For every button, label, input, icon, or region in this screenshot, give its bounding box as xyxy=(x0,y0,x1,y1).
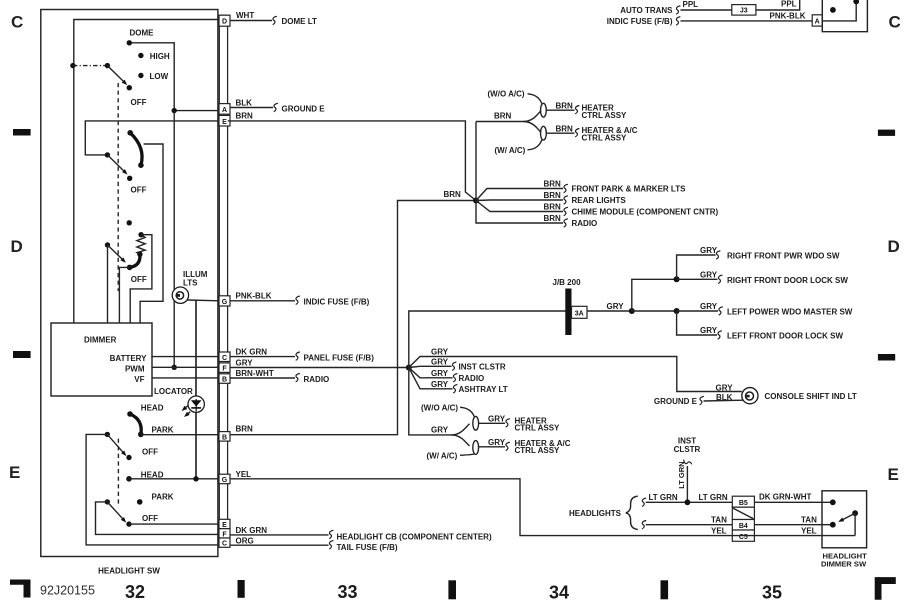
svg-text:GRY: GRY xyxy=(607,302,625,311)
svg-text:CTRL ASSY: CTRL ASSY xyxy=(582,111,628,120)
svg-text:HEADLIGHTS: HEADLIGHTS xyxy=(569,509,622,518)
junction dot LED to HEAD wire xyxy=(193,476,198,481)
wire S2 arc tap to vertical xyxy=(140,144,163,323)
svg-text:BATTERY: BATTERY xyxy=(110,354,148,363)
grid tick 3 xyxy=(661,580,669,599)
wire BRN to chime module xyxy=(476,201,563,212)
wire BRN to front park and marker lts xyxy=(476,189,563,201)
switch S3 contact arc xyxy=(130,254,140,267)
headlight dimmer switch box xyxy=(822,491,867,548)
svg-text:C: C xyxy=(222,355,227,362)
wire GRY from pin F to junction xyxy=(230,367,409,369)
switch S1 arm with arrow xyxy=(107,66,125,84)
wire LT GRN from inst clstr down xyxy=(683,460,692,465)
switch S5 HEAD contact dot xyxy=(126,476,132,482)
node GRY junction xyxy=(406,365,412,371)
svg-text:ORG: ORG xyxy=(236,537,254,546)
svg-text:LOCATOR: LOCATOR xyxy=(154,387,193,396)
svg-text:INST CLSTR: INST CLSTR xyxy=(459,363,506,372)
switch S2 lower contact dot xyxy=(138,162,144,168)
switch S1 HIGH contact xyxy=(138,53,143,58)
wire S3 pole to dimmer box xyxy=(107,245,109,323)
node BRN junction xyxy=(473,198,479,204)
switch S3 upper contact dot xyxy=(127,220,132,225)
switch S1 OFF contact xyxy=(127,85,132,90)
pin box C2 xyxy=(219,538,230,548)
svg-text:BRN: BRN xyxy=(556,102,574,111)
svg-text:C: C xyxy=(889,12,901,31)
wire A junction to pin A xyxy=(174,110,219,112)
wire GRY left front door lock sw xyxy=(677,311,717,335)
wire GRY radio xyxy=(409,368,453,378)
switch S4 OFF contact dot xyxy=(126,455,131,460)
svg-text:C: C xyxy=(11,12,23,31)
wire S5 pole to pin F2 xyxy=(96,502,220,535)
svg-text:J3: J3 xyxy=(740,8,748,15)
svg-text:BRN: BRN xyxy=(236,111,254,120)
svg-text:BRN: BRN xyxy=(544,191,562,200)
switch S5 pole dot xyxy=(105,499,110,504)
headlight switch inner partition (top edge + left edge) xyxy=(74,20,220,324)
connector oval W/ A/C 2 xyxy=(473,441,479,455)
wire pin G circuit down through LED to HEAD wire xyxy=(195,301,197,479)
svg-text:HEADLIGHT CB (COMPONENT CENTER: HEADLIGHT CB (COMPONENT CENTER) xyxy=(337,533,492,542)
svg-text:BRN: BRN xyxy=(544,203,562,212)
svg-text:LT GRN: LT GRN xyxy=(677,461,686,488)
switch S1 pivot dot xyxy=(105,63,110,68)
switch S4 contact arc xyxy=(130,414,141,434)
pin box E2 xyxy=(219,519,230,529)
svg-text:GRY: GRY xyxy=(700,246,718,255)
svg-text:CTRL ASSY: CTRL ASSY xyxy=(515,424,561,433)
wire lamp to pin G xyxy=(188,299,220,302)
wire YEL from pin G2 to dimmer switch xyxy=(230,479,855,536)
svg-text:F: F xyxy=(222,366,227,373)
wire PPL from J3 up xyxy=(756,0,800,10)
dimmer module box xyxy=(51,323,152,396)
svg-text:PNK-BLK: PNK-BLK xyxy=(236,292,272,301)
lamp ILLUM LTS xyxy=(172,287,188,303)
switch S1 pole dot xyxy=(70,63,75,68)
switch S2 arm with arrow xyxy=(107,155,125,173)
svg-text:PPL: PPL xyxy=(683,0,699,9)
switch S1 LOW contact xyxy=(138,73,143,78)
wire BLK ground e xyxy=(230,107,273,109)
svg-text:DOME: DOME xyxy=(130,28,155,37)
wire S4 pole to pin C2 xyxy=(86,434,219,545)
wire S5 HEAD to pin G2 xyxy=(129,478,219,480)
svg-text:HEAD: HEAD xyxy=(141,404,164,413)
wire GRY ashtray lt xyxy=(409,368,453,389)
svg-text:D: D xyxy=(222,19,227,26)
junction dot A xyxy=(172,108,177,113)
svg-text:G: G xyxy=(222,299,228,306)
wire BRN heater feed xyxy=(475,122,477,201)
switch S1 dome contact dot xyxy=(127,40,132,45)
svg-text:LTS: LTS xyxy=(183,279,198,288)
dimmer sw contact dots xyxy=(830,499,836,505)
svg-text:AUTO TRANS: AUTO TRANS xyxy=(620,6,673,15)
wire YEL through C5 xyxy=(732,535,754,537)
svg-text:F: F xyxy=(222,531,227,538)
svg-text:WHT: WHT xyxy=(236,11,254,20)
pin box A3 xyxy=(812,15,822,26)
svg-text:INDIC FUSE (F/B): INDIC FUSE (F/B) xyxy=(607,17,673,26)
svg-text:(W/ A/C): (W/ A/C) xyxy=(495,146,526,155)
edge tick left 2 xyxy=(13,351,31,358)
wire GRY up to J/B 200 xyxy=(409,311,632,368)
svg-text:YEL: YEL xyxy=(711,527,727,536)
wire BRN from pin E across page xyxy=(228,121,476,201)
svg-text:RADIO: RADIO xyxy=(572,219,598,228)
svg-text:GRY: GRY xyxy=(716,383,734,392)
svg-text:GRY: GRY xyxy=(431,369,449,378)
switch S2 OFF contact dot xyxy=(127,176,132,181)
svg-text:YEL: YEL xyxy=(236,470,252,479)
pin box D xyxy=(219,15,230,26)
wire GRY down to heater ovals xyxy=(409,368,452,435)
wire PWM to pin F xyxy=(152,366,219,368)
svg-text:E: E xyxy=(222,522,227,529)
svg-text:GRY: GRY xyxy=(431,348,449,357)
svg-text:PANEL FUSE (F/B): PANEL FUSE (F/B) xyxy=(304,354,375,363)
pin box A xyxy=(219,104,230,115)
wire BRN park lights from pin B2 up to BRN junction xyxy=(230,201,476,435)
svg-text:RIGHT FRONT PWR WDO SW: RIGHT FRONT PWR WDO SW xyxy=(727,252,840,261)
wire GRY to heater a/c ctrl assy 2 xyxy=(479,446,505,449)
svg-text:A: A xyxy=(222,107,227,114)
svg-text:HIGH: HIGH xyxy=(150,52,170,61)
svg-text:B: B xyxy=(222,434,227,441)
svg-text:E: E xyxy=(222,119,227,126)
switch S2 pole dot xyxy=(105,152,110,157)
svg-text:(W/O A/C): (W/O A/C) xyxy=(421,403,458,412)
svg-text:E: E xyxy=(888,465,899,484)
connector strip xyxy=(219,15,227,546)
wire BRN to rear lights xyxy=(476,199,563,202)
svg-text:OFF: OFF xyxy=(131,275,147,284)
svg-text:YEL: YEL xyxy=(801,527,817,536)
svg-text:A: A xyxy=(815,19,820,26)
wire S5 OFF to pin E2 xyxy=(129,523,219,525)
svg-text:(W/ A/C): (W/ A/C) xyxy=(427,451,458,460)
svg-text:TAN: TAN xyxy=(801,516,817,525)
grid tick 2 xyxy=(448,580,456,599)
wire BATTERY to pin C xyxy=(152,356,219,358)
switch S2 upper contact dot xyxy=(127,130,133,136)
connector stack B5 / B4 / C5 xyxy=(732,496,754,507)
svg-text:BRN: BRN xyxy=(494,111,512,120)
connector oval W/O A/C 2 xyxy=(473,416,479,430)
svg-text:J/B 200: J/B 200 xyxy=(553,278,582,287)
junction dot PWM xyxy=(172,365,177,370)
svg-text:VF: VF xyxy=(134,375,144,384)
svg-text:BRN: BRN xyxy=(556,125,574,134)
svg-text:DOME LT: DOME LT xyxy=(282,17,318,26)
svg-text:HEAD: HEAD xyxy=(141,470,164,479)
svg-text:32: 32 xyxy=(125,582,145,602)
svg-text:PNK-BLK: PNK-BLK xyxy=(770,12,806,21)
svg-text:DK GRN-WHT: DK GRN-WHT xyxy=(759,492,812,501)
switch S3 OFF contact dot xyxy=(127,265,133,271)
wire LT GRN headlights xyxy=(642,498,646,506)
svg-text:REAR LIGHTS: REAR LIGHTS xyxy=(572,196,627,205)
svg-text:D: D xyxy=(888,237,900,256)
wire pin E to switch S2 pole xyxy=(85,121,219,155)
svg-text:PARK: PARK xyxy=(152,425,174,434)
connector oval W/O A/C xyxy=(541,103,547,117)
pin box G2 xyxy=(219,474,230,484)
pin box G xyxy=(219,296,230,306)
svg-text:BRN: BRN xyxy=(444,190,462,199)
pin box B xyxy=(219,374,230,384)
wire GRY right front door lock sw xyxy=(677,278,718,280)
wire VF to pin B xyxy=(152,377,219,379)
switch S3 arm with arrow xyxy=(108,245,125,261)
svg-text:INDIC FUSE (F/B): INDIC FUSE (F/B) xyxy=(304,298,370,307)
svg-text:BRN: BRN xyxy=(236,424,254,433)
svg-text:GRY: GRY xyxy=(488,438,506,447)
svg-text:GRY: GRY xyxy=(431,380,449,389)
svg-text:HEADLIGHT SW: HEADLIGHT SW xyxy=(98,567,160,576)
wire TAN to dimmer sw xyxy=(754,524,831,526)
wire GRY right front pwr wdo sw xyxy=(677,255,716,279)
node junction left branch xyxy=(674,308,680,314)
svg-text:TAN: TAN xyxy=(711,516,727,525)
node junction right front xyxy=(674,276,680,282)
switch S2 contact arc xyxy=(130,133,142,165)
wire Y split to heater ovals xyxy=(524,111,542,122)
pin box E xyxy=(219,115,230,126)
svg-text:OFF: OFF xyxy=(142,448,158,457)
wire S4 PARK to pin B2 xyxy=(141,434,220,436)
svg-text:C: C xyxy=(222,541,227,548)
svg-text:OFF: OFF xyxy=(142,514,158,523)
dimmer sw pole dot and arm xyxy=(852,510,858,516)
svg-text:LEFT POWER WDO MASTER SW: LEFT POWER WDO MASTER SW xyxy=(727,308,853,317)
svg-text:GRY: GRY xyxy=(431,425,449,434)
corner mark bottom right xyxy=(875,577,896,600)
wire Y split to heater ovals 2 xyxy=(452,424,470,435)
headlight switch outer box xyxy=(41,10,218,557)
LED arrows xyxy=(183,406,188,410)
svg-text:GRY: GRY xyxy=(700,302,718,311)
pin box F2 xyxy=(219,529,230,539)
svg-text:E: E xyxy=(9,463,20,482)
svg-text:D: D xyxy=(11,237,23,256)
switch S5 OFF contact dot xyxy=(126,521,131,526)
wire TAN headlights xyxy=(642,521,646,529)
svg-text:RADIO: RADIO xyxy=(304,375,330,384)
svg-text:G: G xyxy=(222,477,228,484)
wire DK GRN-WHT to dimmer sw xyxy=(754,501,831,503)
svg-text:LT GRN: LT GRN xyxy=(699,493,728,502)
svg-text:CONSOLE SHIFT IND LT: CONSOLE SHIFT IND LT xyxy=(765,392,857,401)
junction block J3 xyxy=(732,5,756,16)
wire DOME contact to A junction xyxy=(129,43,174,111)
switch S5 PARK contact dot xyxy=(137,499,143,505)
svg-text:BRN-WHT: BRN-WHT xyxy=(236,369,274,378)
svg-text:34: 34 xyxy=(549,583,569,603)
svg-text:GRY: GRY xyxy=(236,359,254,368)
svg-text:DIMMER: DIMMER xyxy=(84,336,117,345)
wire GRY long run to console shift ind lt xyxy=(409,357,742,392)
ignition switch box top right xyxy=(822,0,867,32)
pin box F xyxy=(219,363,230,373)
edge tick left 1 xyxy=(13,129,31,136)
mechanical link dashed line lower xyxy=(117,439,119,508)
svg-text:92J20155: 92J20155 xyxy=(40,584,95,598)
wire DK GRN panel fuse xyxy=(230,356,295,358)
switch S4 arm with arrow xyxy=(107,434,125,454)
wire DK GRN headlight cb xyxy=(230,534,329,536)
svg-text:OFF: OFF xyxy=(131,185,147,194)
wire BRN to heater ctrl assy xyxy=(546,109,574,111)
edge tick right 1 xyxy=(878,130,895,136)
svg-text:PARK: PARK xyxy=(152,493,174,502)
svg-text:OFF: OFF xyxy=(131,98,147,107)
svg-text:(W/O A/C): (W/O A/C) xyxy=(488,90,525,99)
svg-text:GRY: GRY xyxy=(431,357,449,366)
wire GRY inst clstr xyxy=(409,366,452,367)
svg-text:B: B xyxy=(222,377,227,384)
mechanical link dashed line upper xyxy=(117,83,119,291)
wire GRY up to right front branch xyxy=(632,279,677,311)
svg-text:PPL: PPL xyxy=(781,0,797,9)
svg-text:TAIL FUSE (F/B): TAIL FUSE (F/B) xyxy=(337,543,398,552)
svg-text:GROUND E: GROUND E xyxy=(282,105,326,114)
grid tick 1 xyxy=(238,580,245,598)
svg-text:3A: 3A xyxy=(575,311,584,318)
svg-text:LT GRN: LT GRN xyxy=(649,493,678,502)
svg-text:RADIO: RADIO xyxy=(459,374,485,383)
svg-text:B4: B4 xyxy=(739,523,748,530)
wire GRY main to left branch xyxy=(632,310,677,312)
wire YEL up to pole xyxy=(854,513,856,535)
edge tick right 2 xyxy=(878,354,895,361)
svg-text:CTRL ASSY: CTRL ASSY xyxy=(515,446,561,455)
svg-text:GRY: GRY xyxy=(700,270,718,279)
wire A junction down to illum lamp and PWM xyxy=(173,111,175,368)
switch S4 pole dot xyxy=(105,432,110,437)
svg-text:BLK: BLK xyxy=(236,98,253,107)
svg-text:LOW: LOW xyxy=(150,72,169,81)
svg-text:BLK: BLK xyxy=(716,393,733,402)
wire GRY left power wdo master sw xyxy=(677,310,718,312)
svg-text:35: 35 xyxy=(762,583,782,603)
svg-text:CHIME MODULE (COMPONENT CNTR): CHIME MODULE (COMPONENT CNTR) xyxy=(572,208,719,217)
switch S3 pole dot xyxy=(105,242,110,247)
svg-text:33: 33 xyxy=(337,582,357,602)
wire GRY to heater ctrl assy 2 xyxy=(479,422,505,424)
svg-text:GROUND E: GROUND E xyxy=(654,397,698,406)
svg-text:CLSTR: CLSTR xyxy=(674,445,701,454)
node GRY window switch junction 1 xyxy=(629,308,635,314)
switch S5 arm with arrow xyxy=(107,502,124,521)
svg-text:CTRL ASSY: CTRL ASSY xyxy=(582,134,628,143)
wire PNK-BLK indic fuse xyxy=(230,300,295,302)
svg-text:RIGHT FRONT DOOR LOCK SW: RIGHT FRONT DOOR LOCK SW xyxy=(727,276,848,285)
wire S3 OFF to dimmer box xyxy=(119,267,129,323)
svg-text:GRY: GRY xyxy=(488,414,506,423)
resistor R1 (dimmer rheostat) xyxy=(137,235,145,255)
wire BLK ground e stub xyxy=(704,399,743,402)
svg-text:LEFT FRONT DOOR LOCK SW: LEFT FRONT DOOR LOCK SW xyxy=(727,332,843,341)
svg-text:DK GRN: DK GRN xyxy=(236,348,268,357)
svg-text:B5: B5 xyxy=(739,500,748,507)
switch S4 PARK contact dot xyxy=(138,432,144,438)
wire BRN-WHT radio xyxy=(230,377,295,379)
svg-text:BRN: BRN xyxy=(544,214,562,223)
svg-text:FRONT PARK & MARKER LTS: FRONT PARK & MARKER LTS xyxy=(572,185,687,194)
wire resistor top tap xyxy=(130,235,152,323)
svg-text:PWM: PWM xyxy=(125,364,145,373)
corner mark bottom left xyxy=(10,580,31,598)
svg-text:ASHTRAY LT: ASHTRAY LT xyxy=(459,385,508,394)
switch S4 HEAD contact dot xyxy=(127,411,133,417)
wire BRN to heater a/c ctrl assy xyxy=(546,132,574,134)
brace xyxy=(626,496,638,529)
pin box B2 xyxy=(219,432,230,442)
svg-text:BRN: BRN xyxy=(544,180,562,189)
switch S1 linkage dash-dot xyxy=(73,65,108,67)
svg-text:GRY: GRY xyxy=(700,326,718,335)
svg-text:DK GRN: DK GRN xyxy=(236,526,268,535)
wire ORG tail fuse xyxy=(230,544,329,546)
wire WHT dome lt xyxy=(230,20,272,22)
pin box C xyxy=(219,352,230,362)
grommet console shift ind lt xyxy=(742,388,758,404)
connector oval W/ A/C xyxy=(541,126,547,140)
svg-text:DIMMER SW: DIMMER SW xyxy=(821,560,867,569)
node LT GRN junction xyxy=(685,499,691,505)
wire BRN to radio xyxy=(476,201,563,224)
